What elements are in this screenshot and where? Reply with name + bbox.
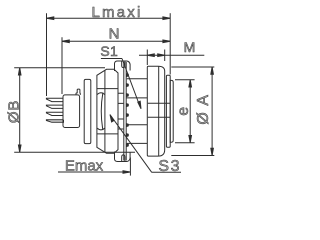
nut bottom face arc bbox=[97, 128, 105, 130]
contact pins bbox=[46, 98, 63, 122]
svg-text:Emax: Emax bbox=[65, 157, 104, 174]
svg-text:N: N bbox=[109, 26, 120, 43]
dim e bbox=[175, 80, 195, 143]
svg-text:M: M bbox=[184, 39, 196, 55]
svg-text:Lmaxi: Lmaxi bbox=[91, 4, 142, 21]
front nose bbox=[170, 80, 173, 142]
nut face line lower bbox=[97, 133, 118, 135]
panel nut bbox=[97, 69, 118, 153]
key tab bbox=[76, 89, 80, 95]
collar disc bbox=[166, 75, 170, 147]
dim OA bbox=[171, 67, 214, 156]
thread neck bbox=[126, 98, 147, 125]
S1 leader bbox=[122, 59, 140, 107]
shell face line bbox=[158, 67, 160, 156]
nut face line upper bbox=[97, 88, 118, 90]
nut chamfer arc bbox=[101, 93, 103, 131]
dim Emax bbox=[58, 158, 130, 176]
dim Lmaxi bbox=[47, 13, 171, 96]
neck outer lines bbox=[127, 79, 148, 144]
nut top face arc bbox=[97, 93, 105, 95]
S3 leader bbox=[111, 116, 152, 172]
front shell bbox=[147, 66, 164, 156]
serrated lock washer bbox=[115, 61, 131, 162]
thread stub lines in gap bbox=[118, 93, 123, 129]
dim OB bbox=[14, 68, 135, 153]
dim N bbox=[62, 37, 170, 94]
svg-text:S1: S1 bbox=[100, 43, 118, 59]
nut chamfer line bbox=[104, 71, 106, 153]
svg-text:ØB: ØB bbox=[6, 100, 23, 123]
svg-text:ØA: ØA bbox=[195, 88, 212, 124]
gasket washer bbox=[84, 79, 91, 143]
dim M bbox=[139, 50, 204, 66]
connector body bbox=[63, 95, 80, 128]
center bore lines bbox=[148, 103, 170, 117]
svg-text:e: e bbox=[175, 107, 192, 116]
